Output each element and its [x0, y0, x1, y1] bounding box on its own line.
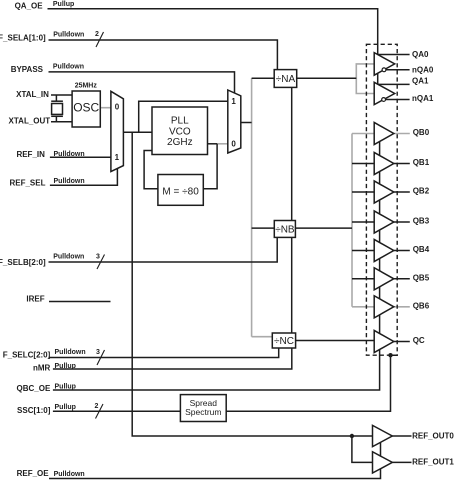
- crystal Y1 plate top: [51, 100, 63, 102]
- svg-text:REF_SEL: REF_SEL: [9, 179, 45, 188]
- oscillator OSC box: [72, 91, 100, 127]
- wire QB3 arm: [352, 221, 374, 223]
- svg-text:1: 1: [115, 153, 120, 162]
- svg-text:QB3: QB3: [413, 217, 430, 226]
- svg-text:SSC[1:0]: SSC[1:0]: [17, 406, 51, 415]
- wire QA bracket (gray): [356, 64, 374, 94]
- wire divider NB output: [295, 227, 352, 229]
- svg-text:2GHz: 2GHz: [167, 137, 193, 148]
- buffer QB3: [374, 211, 394, 233]
- wire bypass mux output: [241, 122, 252, 124]
- svg-text:XTAL_OUT: XTAL_OUT: [9, 117, 51, 126]
- wire mux1 output to PLL: [123, 131, 152, 133]
- wire reference down line: [132, 132, 372, 436]
- inversion bubble nQA0: [382, 68, 386, 72]
- wire QA1 output: [378, 83, 410, 85]
- wire reference branch to bypass mux 1: [139, 101, 228, 132]
- buffer QB5: [374, 268, 394, 290]
- wire QB6 arm (gray): [352, 306, 374, 308]
- svg-text:0: 0: [231, 139, 236, 148]
- buffer REF_OUT1: [373, 452, 393, 473]
- svg-text:PLL: PLL: [171, 116, 189, 127]
- buffer QB2: [374, 181, 394, 203]
- wire REF_IN net: [50, 156, 111, 158]
- wire crystal branch bottom: [55, 116, 57, 121]
- wire nQA1 output: [386, 99, 410, 101]
- svg-text:Pulldown: Pulldown: [54, 151, 85, 158]
- mux U2 bypass select: [228, 90, 241, 153]
- svg-text:Pulldown: Pulldown: [53, 32, 84, 39]
- svg-text:QB4: QB4: [413, 245, 430, 254]
- svg-text:÷NA: ÷NA: [276, 74, 296, 85]
- svg-text:nMR: nMR: [33, 364, 51, 373]
- node junction on reference line to REF_OUT buffers: [350, 434, 354, 438]
- node junction spread spectrum to output block: [388, 353, 392, 357]
- wire REF_OUT1 branch: [352, 436, 373, 462]
- svg-text:Pullup: Pullup: [53, 1, 74, 8]
- wire divider NA input stub: [252, 77, 275, 79]
- svg-text:QC: QC: [413, 336, 425, 345]
- svg-text:Pullup: Pullup: [55, 383, 76, 390]
- wire QB6 output line (gray): [394, 306, 410, 308]
- svg-text:2: 2: [95, 31, 99, 38]
- wire REF_SEL net: [50, 169, 118, 186]
- wire QB0 output line (gray): [394, 133, 410, 135]
- svg-text:REF_IN: REF_IN: [16, 150, 45, 159]
- bus slash F_SELA: [96, 32, 104, 47]
- divider NC box: [272, 333, 295, 348]
- svg-text:25MHz: 25MHz: [75, 82, 98, 89]
- svg-text:QB1: QB1: [413, 158, 430, 167]
- wire REF_OE net: [49, 436, 381, 479]
- divider NA box: [274, 70, 297, 88]
- svg-text:IREF: IREF: [26, 295, 44, 304]
- wire QB1 arm: [352, 163, 374, 165]
- wire divider NA output: [297, 77, 357, 79]
- wire REF_OUT1 output: [392, 461, 411, 463]
- svg-text:2: 2: [95, 403, 99, 410]
- svg-text:QA_OE: QA_OE: [15, 1, 44, 10]
- PLL VCO box: [152, 107, 208, 155]
- wire QB5 arm: [352, 278, 374, 280]
- wire QB1 output: [394, 163, 410, 165]
- svg-text:F_SELA[1:0]: F_SELA[1:0]: [0, 34, 46, 43]
- wire XTAL_OUT: [51, 121, 72, 123]
- svg-text:QBC_OE: QBC_OE: [17, 384, 51, 393]
- feedback divider M box: [158, 175, 203, 206]
- wire divider NC output: [296, 340, 375, 342]
- svg-text:3: 3: [96, 349, 100, 356]
- svg-text:QA1: QA1: [412, 76, 429, 85]
- buffer QB4: [374, 239, 394, 261]
- svg-text:QB5: QB5: [413, 273, 430, 282]
- wire F_SELC net: [49, 348, 279, 358]
- svg-text:Pullup: Pullup: [55, 363, 76, 370]
- buffer QC: [374, 330, 394, 352]
- svg-text:VCO: VCO: [169, 126, 191, 137]
- wire F_SELB net: [49, 237, 278, 262]
- svg-text:Pulldown: Pulldown: [54, 178, 85, 185]
- wire bypass-mux output vertical distribution (gray): [251, 78, 253, 337]
- wire F_SELA net: [49, 40, 278, 70]
- buffer QA0/nQA0: [374, 53, 395, 76]
- wire divider NB input stub: [252, 227, 275, 229]
- wire OSC to mux0 stub (gray): [100, 107, 111, 109]
- wire PLL feedback via M divider: [203, 144, 217, 189]
- wire M divider to PLL input: [144, 151, 158, 189]
- svg-text:nQA1: nQA1: [412, 94, 434, 103]
- wire QB bracket vertical (gray): [351, 134, 353, 307]
- svg-text:REF_OUT1: REF_OUT1: [412, 458, 454, 467]
- wire QB4 arm: [352, 250, 374, 252]
- wire QBC_OE net: [53, 134, 380, 391]
- buffer QB6: [374, 296, 394, 318]
- wire crystal branch top: [55, 95, 57, 101]
- wire QB5 output: [394, 278, 410, 280]
- wire divider NC input stub (gray): [252, 336, 273, 338]
- svg-text:M = ÷80: M = ÷80: [162, 187, 199, 198]
- wire QB0 arm (gray): [352, 133, 374, 135]
- wire REF_OUT0 output: [392, 435, 411, 437]
- wire PLL to bypass-mux 0 stub (gray): [217, 143, 228, 145]
- wire BYPASS net: [49, 72, 235, 93]
- svg-text:REF_OE: REF_OE: [17, 469, 50, 478]
- svg-text:Spectrum: Spectrum: [185, 407, 221, 417]
- wire PLL output: [208, 143, 218, 145]
- buffer REF_OUT0: [373, 425, 393, 446]
- buffer QA1/nQA1: [374, 82, 395, 104]
- dashed output block boundary: [366, 44, 397, 355]
- svg-text:3: 3: [96, 254, 100, 261]
- wire QB4 output: [394, 250, 410, 252]
- buffer QB1: [374, 152, 394, 174]
- svg-text:Pulldown: Pulldown: [53, 254, 84, 261]
- wire spread spectrum output: [226, 355, 398, 411]
- svg-text:XTAL_IN: XTAL_IN: [16, 90, 49, 99]
- bus slash SSC: [96, 404, 104, 419]
- svg-text:nQA0: nQA0: [412, 65, 434, 74]
- wire QB2 output: [394, 191, 410, 193]
- svg-text:÷NB: ÷NB: [275, 224, 295, 235]
- svg-text:QA0: QA0: [412, 50, 429, 59]
- wire QC output: [394, 341, 410, 343]
- crystal Y1 body: [52, 104, 63, 115]
- wire nMR net: [53, 348, 292, 369]
- svg-text:Pulldown: Pulldown: [53, 63, 84, 70]
- svg-text:÷NC: ÷NC: [274, 336, 294, 347]
- divider NB box: [274, 221, 295, 238]
- svg-text:F_SELC[2:0]: F_SELC[2:0]: [3, 351, 51, 360]
- spread spectrum box: [180, 395, 226, 422]
- svg-text:F_SELB[2:0]: F_SELB[2:0]: [0, 258, 46, 267]
- buffer QB0: [374, 122, 394, 144]
- wire QA0 output: [378, 54, 410, 56]
- inversion bubble nQA1: [382, 98, 386, 102]
- wire IREF stub: [49, 301, 111, 303]
- wire QB2 arm: [352, 191, 374, 193]
- svg-text:0: 0: [115, 103, 120, 112]
- wire QA_OE net: [48, 9, 378, 93]
- svg-text:REF_OUT0: REF_OUT0: [412, 431, 454, 440]
- svg-text:QB0: QB0: [413, 128, 430, 137]
- mux U1 reference select: [111, 91, 124, 171]
- wire nQA0 output: [386, 69, 410, 71]
- svg-text:Pulldown: Pulldown: [55, 349, 86, 356]
- svg-text:Pullup: Pullup: [55, 404, 76, 411]
- svg-text:QB2: QB2: [413, 187, 430, 196]
- svg-text:OSC: OSC: [73, 101, 99, 115]
- wire SSC net: [53, 410, 180, 412]
- svg-text:QB6: QB6: [413, 301, 430, 310]
- wire QB3 output: [394, 221, 410, 223]
- svg-text:1: 1: [231, 97, 236, 106]
- crystal Y1 plate bottom: [51, 115, 63, 117]
- bus slash F_SELC: [97, 350, 105, 365]
- bus slash F_SELB: [97, 255, 105, 270]
- wire nMR vertical NC to NB: [291, 237, 293, 333]
- svg-text:Pulldown: Pulldown: [54, 471, 85, 478]
- svg-text:BYPASS: BYPASS: [11, 65, 44, 74]
- wire XTAL_IN: [51, 94, 72, 96]
- wire nMR vertical NB to NA: [291, 87, 293, 220]
